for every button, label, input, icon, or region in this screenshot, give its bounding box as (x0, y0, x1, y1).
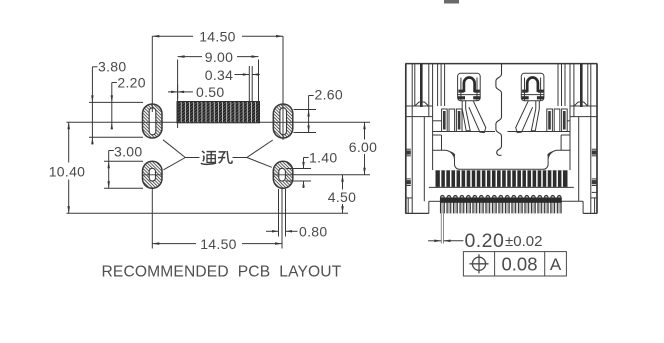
mid cavity shelf line (433, 131, 495, 133)
inner step left (433, 134, 442, 136)
dim 14.50 bottom (152, 188, 282, 252)
dim 4.50 (326, 175, 359, 214)
centerline row2 right extension (293, 174, 370, 176)
dim 0.34 (205, 66, 260, 102)
latch spring right (516, 73, 544, 132)
left foot (405, 212, 429, 214)
pad oval top-right (273, 104, 293, 138)
bottom rail between feet (429, 200, 441, 202)
dim 6.00 (347, 122, 380, 175)
cavity corner dark left (446, 151, 455, 159)
svg-text:10.40: 10.40 (49, 163, 86, 179)
svg-text:0.20: 0.20 (465, 230, 505, 252)
pin rail dark band (440, 198, 562, 203)
svg-text:0.08: 0.08 (501, 253, 537, 274)
cavity tub outline (433, 150, 570, 169)
left step ledge (405, 105, 432, 107)
dim 3.00 (107, 144, 142, 189)
tangent line oval top row2 (104, 160, 143, 162)
tangent line oval bottom row1 (89, 136, 143, 138)
bottom edge line (67, 212, 349, 214)
svg-text:2.60: 2.60 (315, 87, 343, 103)
shell left outer wall (405, 64, 407, 214)
dim 2.60 (294, 87, 343, 133)
right foot (583, 212, 597, 214)
svg-text:0.80: 0.80 (299, 224, 327, 240)
dim 0.50 (168, 84, 224, 100)
svg-text:3.00: 3.00 (114, 144, 142, 160)
central divider zigzag (496, 64, 502, 156)
comb contact band (436, 170, 568, 187)
pin row (441, 195, 562, 213)
pad anode bar (hatched) (177, 102, 260, 123)
top cut-off smudge (444, 0, 459, 4)
dim 1.40 (286, 149, 337, 188)
svg-text:0.34: 0.34 (205, 67, 233, 83)
pad oval top-left (143, 104, 163, 138)
dim 3.80 (91, 59, 126, 145)
latch spring left (458, 73, 486, 132)
svg-text:14.50: 14.50 (200, 236, 237, 252)
svg-text:14.50: 14.50 (199, 28, 236, 44)
tangent line oval top row1 (89, 101, 143, 103)
svg-text:2.20: 2.20 (117, 74, 145, 90)
cavity corner dark right (547, 151, 556, 159)
svg-text:A: A (550, 255, 562, 274)
tangent line oval bottom row2 (104, 187, 143, 189)
dim 14.50 top (152, 28, 283, 140)
dim 2.20 (111, 74, 146, 129)
leader tongkong text (163, 140, 273, 170)
left wall tick boxes (405, 148, 411, 150)
left contact bar cluster (442, 109, 448, 132)
placeholder groups filled in below (49, 28, 380, 280)
centerline row1 (67, 121, 371, 123)
connector top edge (405, 63, 597, 65)
svg-text:6.00: 6.00 (349, 139, 377, 155)
svg-text:±0.02: ±0.02 (505, 233, 542, 250)
svg-text:RECOMMENDED PCB LAYOUT: RECOMMENDED PCB LAYOUT (102, 264, 342, 281)
pad oval bottom-right (273, 161, 293, 188)
inner step right (561, 134, 570, 136)
dim 10.40 (49, 122, 86, 213)
shell right outer wall (596, 64, 598, 214)
svg-text:4.50: 4.50 (328, 189, 356, 205)
svg-text:3.80: 3.80 (98, 59, 126, 75)
svg-text:0.50: 0.50 (196, 84, 224, 100)
right step ledge (570, 105, 597, 107)
centerline row2 over ovals (143, 174, 163, 176)
feature control frame (463, 252, 566, 276)
centerline row1 over ovals (143, 121, 163, 123)
right contact bar cluster (547, 109, 553, 132)
dim 0.20 extension lines (428, 213, 463, 243)
svg-text:9.00: 9.00 (205, 49, 233, 65)
right wall tick boxes (592, 148, 598, 150)
dim 0.80 (266, 189, 327, 240)
body bottom line (429, 186, 574, 188)
dim 9.00 (178, 49, 259, 128)
pad oval bottom-left (143, 161, 163, 188)
svg-text:1.40: 1.40 (309, 149, 337, 165)
